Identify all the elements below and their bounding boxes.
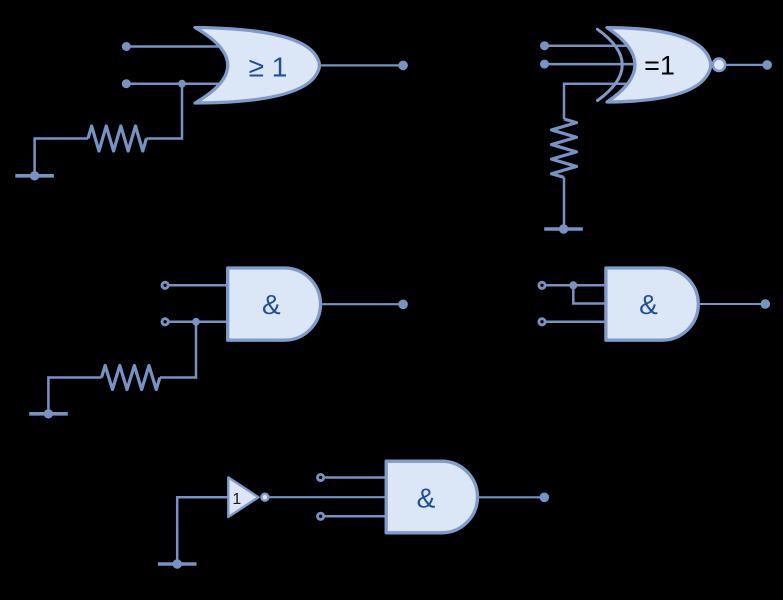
XNOR gate U2 body xyxy=(607,28,711,102)
open terminal D1 xyxy=(539,282,545,288)
output node dot (U3) xyxy=(398,300,408,310)
wire B1 to XNOR xyxy=(545,44,633,47)
open terminal E2 xyxy=(318,513,324,519)
input terminal B2 xyxy=(540,60,549,69)
wire U3 output xyxy=(320,303,403,305)
ground GND1 node dot xyxy=(30,171,39,180)
wire U1 output xyxy=(319,64,404,66)
AND gate U3 body xyxy=(228,268,321,340)
open terminal C2 xyxy=(162,319,168,325)
wire U4 output xyxy=(698,303,765,305)
svg-text:≥ 1: ≥ 1 xyxy=(249,51,288,82)
wire R2 to ground xyxy=(563,177,566,229)
wire XNOR pin3 to resistor R2 xyxy=(564,84,631,119)
open terminal D2 xyxy=(539,319,545,325)
junction on A2 net xyxy=(178,80,186,88)
output node dot (U6) xyxy=(540,493,550,503)
inverter U5 body xyxy=(228,477,258,517)
svg-text:&: & xyxy=(262,289,281,320)
wire D1 to AND gate pin1 xyxy=(546,284,607,287)
resistor R3 xyxy=(102,366,160,390)
wire B2 to XNOR xyxy=(545,63,638,66)
ground GND4 node dot xyxy=(173,559,182,568)
wire A1 to OR gate xyxy=(126,45,224,48)
open terminal C1 xyxy=(162,282,168,288)
wire R3 to ground xyxy=(48,378,101,414)
svg-text:&: & xyxy=(639,289,658,320)
AND gate U6 body xyxy=(386,461,477,533)
wire junction down to resistor R1 xyxy=(146,84,182,139)
input terminal B1 xyxy=(540,41,549,50)
wire E1 to AND gate pin1 xyxy=(324,476,388,479)
wire junction down to resistor R3 xyxy=(160,322,196,378)
input terminal A1 xyxy=(122,42,131,51)
AND gate U4 body xyxy=(606,268,698,340)
XOR input arc of U2 xyxy=(598,29,623,100)
junction on C2 net xyxy=(192,318,200,326)
wire D2 to AND gate pin3 xyxy=(546,321,607,324)
ground GND2 xyxy=(544,227,583,231)
wire ground up to inverter input xyxy=(177,497,228,564)
wire junction jog to AND gate pin2 xyxy=(573,285,607,303)
wire C2 to AND gate xyxy=(169,321,230,324)
junction on D1 net xyxy=(569,281,577,289)
wire inverter to AND gate pin2 xyxy=(269,496,388,498)
ground GND4 xyxy=(158,562,197,566)
wire R1 to ground xyxy=(35,139,88,176)
wire U6 output xyxy=(478,496,545,498)
open terminal E1 xyxy=(318,474,324,480)
XNOR output inversion bubble xyxy=(713,59,725,71)
wire E2 to AND gate pin3 xyxy=(324,515,388,518)
input terminal A2 xyxy=(122,79,131,88)
wire A2 to OR gate xyxy=(126,82,220,85)
output node dot (U4) xyxy=(761,299,771,309)
ground GND3 node dot xyxy=(44,409,53,418)
OR gate U1 body xyxy=(195,28,319,104)
inverter output inversion bubble xyxy=(261,494,268,501)
svg-text:=1: =1 xyxy=(644,50,675,80)
ground GND2 node dot xyxy=(559,224,568,233)
output node dot (OR) xyxy=(398,61,408,71)
svg-text:&: & xyxy=(417,482,436,513)
wire U2 output xyxy=(726,64,767,66)
resistor R2 xyxy=(552,119,577,177)
resistor R1 xyxy=(88,126,146,151)
wire C1 to AND gate xyxy=(169,284,230,287)
output node dot (XNOR) xyxy=(762,60,772,70)
ground GND3 xyxy=(29,412,68,416)
svg-text:1: 1 xyxy=(232,491,241,508)
ground GND1 xyxy=(15,174,54,178)
